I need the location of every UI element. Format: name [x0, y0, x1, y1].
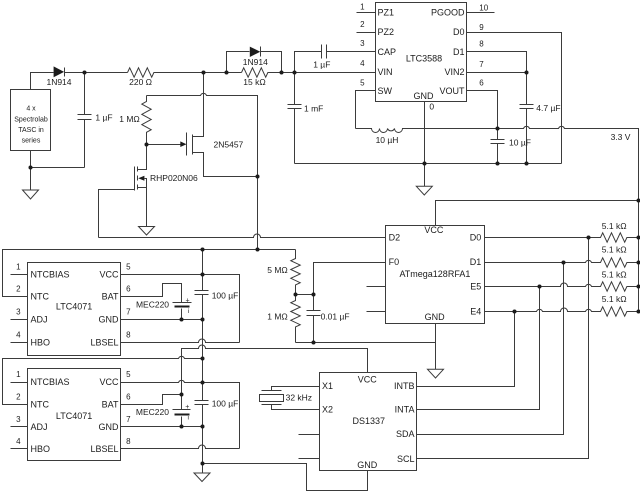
- svg-text:5: 5: [126, 263, 131, 272]
- svg-text:VIN: VIN: [378, 67, 393, 77]
- svg-text:+: +: [186, 298, 190, 305]
- svg-text:X2: X2: [322, 405, 333, 415]
- svg-text:TASC in: TASC in: [18, 127, 44, 134]
- svg-text:MEC220: MEC220: [136, 407, 169, 417]
- svg-text:4.7 µF: 4.7 µF: [536, 103, 560, 113]
- svg-text:INTB: INTB: [394, 381, 415, 391]
- svg-text:CAP: CAP: [378, 47, 397, 57]
- svg-text:VOUT: VOUT: [439, 86, 465, 96]
- svg-text:6: 6: [126, 285, 131, 294]
- svg-text:100 µF: 100 µF: [212, 290, 239, 300]
- svg-text:32 kHz: 32 kHz: [286, 393, 312, 403]
- svg-text:PZ2: PZ2: [378, 27, 395, 37]
- svg-text:5: 5: [126, 370, 131, 379]
- svg-text:GND: GND: [99, 315, 120, 325]
- svg-text:NTC: NTC: [31, 292, 50, 302]
- svg-text:GND: GND: [99, 422, 120, 432]
- svg-text:4 x: 4 x: [26, 105, 36, 112]
- svg-text:2: 2: [360, 20, 365, 29]
- svg-text:SDA: SDA: [396, 429, 415, 439]
- svg-text:X1: X1: [322, 381, 333, 391]
- svg-text:1 MΩ: 1 MΩ: [267, 312, 288, 322]
- svg-text:BAT: BAT: [102, 292, 119, 302]
- svg-text:1: 1: [360, 3, 365, 12]
- svg-text:1N914: 1N914: [46, 77, 71, 87]
- svg-text:100 µF: 100 µF: [212, 398, 239, 408]
- svg-text:HBO: HBO: [31, 444, 51, 454]
- svg-text:4: 4: [16, 437, 21, 446]
- svg-text:HBO: HBO: [31, 337, 51, 347]
- svg-text:8: 8: [126, 437, 131, 446]
- svg-text:10: 10: [479, 3, 488, 12]
- svg-text:VCC: VCC: [424, 225, 444, 235]
- svg-text:2: 2: [16, 393, 21, 402]
- svg-text:DS1337: DS1337: [353, 416, 386, 426]
- svg-text:2N5457: 2N5457: [214, 140, 244, 150]
- svg-text:1: 1: [16, 263, 21, 272]
- svg-text:D0: D0: [453, 27, 465, 37]
- svg-text:0: 0: [429, 102, 434, 112]
- svg-text:1: 1: [16, 370, 21, 379]
- svg-text:NTCBIAS: NTCBIAS: [31, 269, 70, 279]
- svg-text:5.1 kΩ: 5.1 kΩ: [602, 270, 627, 280]
- svg-text:E4: E4: [470, 306, 481, 316]
- svg-text:220 Ω: 220 Ω: [129, 77, 152, 87]
- svg-text:3.3 V: 3.3 V: [611, 132, 631, 142]
- svg-text:RHP020N06: RHP020N06: [150, 173, 198, 183]
- svg-text:SW: SW: [378, 86, 393, 96]
- svg-text:6: 6: [126, 393, 131, 402]
- svg-text:6: 6: [479, 78, 484, 87]
- svg-text:7: 7: [126, 415, 131, 424]
- svg-text:10 µF: 10 µF: [509, 137, 531, 147]
- svg-text:2: 2: [16, 285, 21, 294]
- svg-text:GND: GND: [414, 91, 435, 101]
- svg-text:8: 8: [126, 330, 131, 339]
- svg-text:E5: E5: [470, 282, 481, 292]
- svg-text:1 µF: 1 µF: [95, 113, 112, 123]
- svg-text:INTA: INTA: [395, 405, 415, 415]
- svg-text:series: series: [22, 138, 41, 145]
- svg-text:LTC4071: LTC4071: [56, 301, 92, 311]
- svg-text:+: +: [185, 404, 189, 411]
- svg-text:9: 9: [479, 23, 484, 32]
- svg-text:VCC: VCC: [358, 375, 378, 385]
- svg-text:8: 8: [479, 40, 484, 49]
- svg-text:VCC: VCC: [99, 269, 119, 279]
- svg-text:5.1 kΩ: 5.1 kΩ: [602, 221, 627, 231]
- svg-text:D0: D0: [470, 233, 482, 243]
- svg-text:LTC4071: LTC4071: [56, 411, 92, 421]
- svg-text:BAT: BAT: [102, 399, 119, 409]
- svg-text:5.1 kΩ: 5.1 kΩ: [602, 245, 627, 255]
- svg-text:7: 7: [126, 308, 131, 317]
- svg-text:GND: GND: [425, 312, 446, 322]
- svg-text:i: i: [187, 414, 188, 421]
- svg-text:i: i: [188, 308, 189, 315]
- svg-text:Spectrolab: Spectrolab: [14, 117, 48, 124]
- svg-text:3: 3: [16, 308, 21, 317]
- svg-text:15 kΩ: 15 kΩ: [243, 77, 265, 87]
- svg-text:5: 5: [360, 79, 365, 88]
- svg-text:PZ1: PZ1: [378, 8, 395, 18]
- svg-text:LBSEL: LBSEL: [90, 444, 118, 454]
- svg-text:D1: D1: [470, 257, 482, 267]
- svg-text:10 µH: 10 µH: [376, 135, 399, 145]
- svg-text:5 MΩ: 5 MΩ: [267, 265, 288, 275]
- svg-text:1N914: 1N914: [243, 57, 268, 67]
- svg-text:4: 4: [16, 330, 21, 339]
- svg-text:PGOOD: PGOOD: [431, 8, 465, 18]
- svg-text:LBSEL: LBSEL: [90, 337, 118, 347]
- svg-text:D2: D2: [389, 233, 401, 243]
- svg-text:3: 3: [360, 39, 365, 48]
- svg-text:NTC: NTC: [31, 399, 50, 409]
- svg-text:ADJ: ADJ: [31, 422, 48, 432]
- svg-text:NTCBIAS: NTCBIAS: [31, 377, 70, 387]
- svg-text:LTC3588: LTC3588: [406, 53, 442, 63]
- svg-text:3: 3: [16, 415, 21, 424]
- svg-text:ADJ: ADJ: [31, 315, 48, 325]
- svg-text:1 µF: 1 µF: [313, 60, 330, 70]
- svg-text:VCC: VCC: [99, 377, 119, 387]
- svg-text:F0: F0: [389, 257, 400, 267]
- svg-text:MEC220: MEC220: [136, 299, 169, 309]
- svg-text:VIN2: VIN2: [444, 67, 464, 77]
- svg-text:GND: GND: [357, 460, 378, 470]
- svg-text:0.01 µF: 0.01 µF: [321, 312, 350, 322]
- svg-text:SCL: SCL: [397, 454, 415, 464]
- svg-text:D1: D1: [453, 47, 465, 57]
- svg-text:7: 7: [479, 60, 484, 69]
- svg-text:4: 4: [360, 59, 365, 68]
- svg-text:5.1 kΩ: 5.1 kΩ: [602, 294, 627, 304]
- svg-text:ATmega128RFA1: ATmega128RFA1: [399, 269, 470, 279]
- svg-text:1 mF: 1 mF: [304, 103, 323, 113]
- svg-text:1 MΩ: 1 MΩ: [119, 114, 140, 124]
